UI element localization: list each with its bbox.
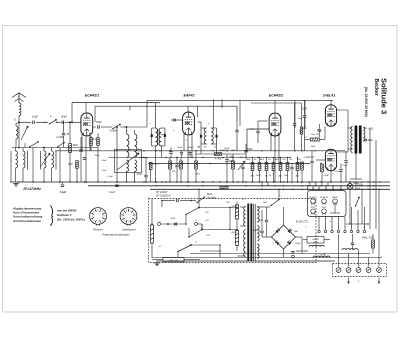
wire right y224 (346, 223, 368, 225)
svg-text:9: 9 (126, 210, 127, 212)
svg-text:4x10: 4x10 (256, 175, 262, 177)
wire bus3 (150, 188, 390, 190)
svg-text:20μF: 20μF (253, 230, 259, 232)
svg-text:50Ω: 50Ω (317, 130, 321, 132)
svg-text:U5013: U5013 (231, 232, 238, 234)
wire rail A (71, 103, 73, 123)
svg-text:10μF: 10μF (298, 118, 304, 120)
capacitor C10a (180, 152, 183, 154)
coil TR1 primary b (244, 230, 246, 257)
wire V1 pins (81, 134, 83, 151)
svg-text:0,1μF: 0,1μF (109, 191, 116, 194)
svg-text:8: 8 (103, 216, 104, 218)
capacitor C11 (175, 164, 178, 166)
wire psu bus b (152, 257, 382, 259)
wire input row (19, 121, 31, 123)
node dots left (44, 122, 45, 123)
svg-text:10nF: 10nF (310, 157, 316, 159)
capacitor C30 (351, 242, 354, 244)
wire V3 grid left (247, 128, 269, 130)
switch S2 (30, 142, 39, 147)
svg-text:0,1MΩ: 0,1MΩ (56, 136, 63, 139)
transformer TR2 core (355, 126, 358, 154)
coil L4 (16, 151, 18, 168)
resistor (97, 138, 100, 146)
rectifier bridge B250 (272, 225, 296, 249)
svg-text:2F=472kHz: 2F=472kHz (22, 187, 41, 191)
svg-text:10nF: 10nF (102, 160, 108, 162)
capacitor 20nF (225, 159, 228, 161)
capacitor C15 (290, 166, 293, 168)
capacitor 10nF g (310, 160, 313, 162)
tube socket diagram A (90, 208, 107, 225)
wire psu extra (161, 201, 163, 208)
oscillator box (115, 150, 142, 173)
svg-text:20μF: 20μF (295, 243, 301, 245)
svg-text:10pF: 10pF (32, 114, 38, 118)
svg-text:ECH42/1: ECH42/1 (309, 197, 317, 199)
svg-text:3: 3 (93, 220, 94, 222)
svg-text:0,1μF: 0,1μF (107, 176, 113, 178)
capacitor C10b (189, 152, 192, 154)
capacitor 50pF (61, 121, 63, 124)
wire bridge bottom (283, 249, 285, 258)
terminal T2 (346, 268, 351, 273)
coil TR2 primary (351, 127, 353, 153)
IF transformer T1 left loop (151, 128, 153, 146)
svg-text:60pF: 60pF (178, 147, 183, 149)
op tube V1 ECH42/1 (81, 113, 93, 136)
svg-text:6: 6 (97, 210, 98, 212)
svg-text:1MΩ: 1MΩ (239, 157, 244, 159)
capacitor 50pF V1 out (93, 126, 96, 128)
svg-text:47nF: 47nF (137, 173, 143, 176)
svg-text:5nF: 5nF (259, 220, 264, 222)
capacitor 80pF (169, 151, 172, 153)
junction dots on buses (85, 181, 87, 183)
coil choke3 (313, 256, 330, 258)
svg-text:BV6L 120V: BV6L 120V (362, 238, 374, 240)
wire lamp (349, 182, 351, 184)
wire antenna down (18, 116, 20, 148)
heater EL41 (311, 209, 316, 214)
svg-text:DT 2/3018 IV: DT 2/3018 IV (156, 195, 171, 198)
wire mid row (108, 157, 290, 159)
wire lamp to pins (357, 206, 359, 210)
wire V2 plate (187, 106, 189, 112)
svg-text:5nF: 5nF (263, 202, 267, 204)
wire speaker 2k (363, 139, 365, 141)
wire ladder 230 (229, 208, 231, 230)
capacitor 10nF (83, 157, 86, 159)
resistor 4.7k (214, 153, 222, 156)
heater ECH42/2 (322, 199, 327, 204)
capacitor 50pF (244, 149, 247, 151)
svg-text:(Nr. 2356 bis 2567c): (Nr. 2356 bis 2567c) (57, 217, 85, 221)
coil L3 ant trim (16, 126, 18, 139)
op tube V3 ECH42/2 (269, 113, 281, 136)
coil L10 (135, 160, 137, 172)
resistor Rgl 1M (149, 162, 152, 169)
coil TR1 secondary c (257, 244, 259, 259)
svg-text:5: 5 (93, 212, 94, 214)
capacitor 47nF (144, 174, 147, 176)
svg-text:0,1μF: 0,1μF (323, 175, 329, 177)
wire riser 147 (146, 100, 148, 127)
wire sel links (199, 207, 237, 209)
transformer TR1 core (247, 204, 249, 262)
svg-text:Solitude 3: Solitude 3 (57, 213, 72, 217)
svg-text:300pF: 300pF (188, 147, 195, 149)
capacitor 0.1uF cathode (324, 126, 326, 139)
svg-text:8μF: 8μF (294, 231, 298, 233)
capacitor 100pF (256, 130, 259, 132)
wire detector row (196, 153, 246, 155)
wire mid drops (261, 182, 263, 186)
svg-text:7: 7 (122, 217, 123, 219)
wire (56, 121, 61, 123)
wire bus links right (307, 186, 309, 191)
wire V4 plate (330, 100, 332, 104)
wire rail C (147, 99, 333, 101)
wire IF2 down (200, 144, 202, 154)
wire bridge top (257, 209, 262, 211)
coil L5 (23, 151, 25, 168)
svg-text:4: 4 (132, 220, 133, 222)
svg-text:50pF: 50pF (96, 121, 102, 124)
heater EAF42 (333, 199, 338, 204)
switch sel3 (178, 245, 191, 252)
svg-text:1MΩ: 1MΩ (229, 161, 234, 163)
switch sel2 (189, 230, 202, 238)
svg-text:0.2: 0.2 (93, 137, 97, 141)
switch S1 (50, 120, 57, 124)
resistor 0.3M (301, 162, 304, 170)
resistor 60pF box (76, 161, 79, 169)
trimmer arrow (41, 153, 50, 166)
svg-text:50pF: 50pF (247, 148, 253, 151)
node (18, 147, 20, 149)
wire psu row (160, 223, 186, 225)
resistor sel R31 (235, 205, 238, 219)
svg-text:2×0,5A: 2×0,5A (319, 253, 327, 256)
wire bridge left (262, 236, 272, 238)
wire (197, 106, 199, 117)
coil L6 (44, 151, 46, 168)
wire (36, 121, 48, 123)
svg-text:2×EL41: 2×EL41 (322, 94, 335, 98)
op tube V4 EL41 (325, 105, 336, 127)
resistor R2 (69, 144, 72, 153)
coil IF2b (211, 128, 213, 144)
wire row 147 (12, 147, 98, 149)
svg-text:ECH42/1: ECH42/1 (85, 94, 99, 98)
extra right caps (339, 169, 342, 171)
switch mains (197, 198, 204, 203)
capacitor 50nF psu (174, 223, 176, 226)
resistor R11 (180, 161, 183, 169)
switch lamp (356, 198, 360, 207)
resistor R12 (195, 161, 198, 169)
tube socket diagram B (120, 208, 137, 225)
resistor R20 (321, 164, 324, 172)
heater box (308, 191, 347, 217)
psu junction dots (185, 223, 187, 225)
resistor 0.5M (116, 127, 118, 182)
svg-text:8: 8 (123, 213, 124, 215)
terminal b (195, 223, 198, 226)
svg-text:4: 4 (92, 216, 93, 218)
IF transformer T1 right loop (164, 128, 166, 146)
resistor RC1 (251, 163, 254, 171)
stub 222 (221, 100, 223, 108)
resistor fuse R30 (150, 225, 153, 243)
heater ECH42/1 (311, 199, 316, 204)
switch S4 (113, 125, 120, 129)
coil TR1 primary a (244, 207, 246, 227)
svg-text:20nF: 20nF (224, 148, 230, 151)
svg-text:25nF: 25nF (343, 165, 349, 167)
svg-text:2: 2 (98, 222, 99, 224)
capacitor 30uF (291, 250, 294, 252)
wire V2 grid left (171, 119, 183, 121)
resistor RC6 (286, 163, 289, 171)
wire bridge right (296, 236, 303, 238)
coil TR1 secondary a (257, 207, 259, 223)
terminal pins (318, 230, 320, 232)
terminal a (158, 223, 161, 226)
svg-text:50pF: 50pF (61, 114, 67, 118)
wire (120, 126, 147, 128)
wire sel verticals (185, 215, 187, 225)
coil L1 antenna coil (19, 103, 21, 116)
wire rail D (304, 100, 306, 128)
wire ground bus (10, 181, 390, 183)
capacitor C18 (293, 123, 296, 125)
fuse NSG 2W (163, 258, 184, 263)
terminal T1 (336, 268, 341, 273)
wire plate link (337, 110, 348, 152)
wire V2 pins (183, 134, 185, 151)
wire TR2 down (355, 154, 357, 180)
trimmer arrow (21, 126, 28, 140)
wire (348, 127, 352, 129)
wire to V1 grid (65, 121, 81, 123)
coil choke1 (309, 245, 324, 246)
core IF1 (157, 129, 159, 145)
svg-text:30pF: 30pF (95, 155, 101, 157)
resistor U4063 (307, 237, 324, 244)
psu dashed box (149, 199, 317, 263)
capacitor bus cap 2 (61, 184, 64, 186)
trimmer arrow (117, 153, 139, 170)
resistor cathode 1k (310, 138, 320, 141)
lamp dial (347, 184, 353, 190)
wire sec top to switch (257, 206, 270, 208)
terminal T4 (366, 268, 371, 273)
wire V3 plate (274, 100, 276, 112)
capacitor bus cap (115, 184, 118, 186)
wire heater links (334, 204, 336, 214)
wire avc row (55, 150, 345, 152)
svg-text:1kΩ 1W: 1kΩ 1W (311, 134, 320, 136)
wire primary links (240, 206, 246, 208)
svg-text:50nF: 50nF (171, 218, 177, 220)
antenna (18, 93, 20, 103)
resistor RC3 (265, 163, 268, 171)
svg-text:wie bei GW55: wie bei GW55 (57, 209, 77, 213)
svg-text:1: 1 (102, 220, 103, 222)
wire grid V5 (330, 171, 332, 182)
resistor RC7 (296, 163, 299, 171)
resistor RC5 (279, 163, 282, 171)
coil L9 (127, 160, 129, 172)
resistor R10 (169, 161, 172, 169)
resistor sel R32 (235, 231, 238, 246)
coil IF2a (204, 128, 206, 144)
coil IF1b (159, 128, 161, 146)
wire V3 pins (270, 134, 272, 151)
svg-text:1: 1 (130, 210, 131, 212)
coil bank wires 1 (10, 151, 12, 170)
wire osc connections (126, 127, 128, 134)
wire IF1 down (154, 146, 156, 182)
svg-text:20nF: 20nF (220, 150, 226, 152)
terminal T3 (356, 268, 361, 273)
junction dots rows (69, 150, 70, 151)
svg-text:B 250 C75: B 250 C75 (296, 221, 308, 224)
heater EL41 (322, 209, 327, 214)
wire y251 (200, 250, 220, 252)
wire psu bus a (190, 253, 370, 255)
IF transformer T2 right loop (216, 128, 218, 144)
ground (13, 183, 18, 185)
svg-text:7: 7 (102, 212, 103, 214)
svg-text:(Nr. 23 600-30 900): (Nr. 23 600-30 900) (364, 87, 368, 117)
svg-text:EL41: EL41 (322, 207, 326, 209)
svg-text:10nF: 10nF (68, 164, 74, 166)
svg-text:Röhren: Röhren (93, 228, 103, 232)
capacitor 20uF (260, 230, 263, 232)
svg-text:EL41: EL41 (311, 207, 315, 209)
wire rail B (95, 106, 237, 122)
arrow terminal 2 (348, 278, 350, 284)
svg-text:EAF42: EAF42 (332, 196, 338, 199)
svg-text:4,7kΩ: 4,7kΩ (215, 159, 221, 161)
wire psu bus c (156, 260, 335, 262)
svg-text:47nF: 47nF (102, 170, 108, 172)
wire right verticals (369, 128, 371, 229)
svg-text:39nF: 39nF (311, 146, 317, 148)
svg-text:3: 3 (134, 217, 135, 219)
svg-text:0,5MΩ: 0,5MΩ (304, 157, 311, 159)
coil choke2 (342, 249, 358, 250)
capacitor 5nF (265, 219, 268, 221)
terminal T5 (377, 268, 382, 273)
coil L8 (135, 134, 137, 158)
coil L6b (52, 151, 54, 168)
resistor R40 (372, 240, 375, 248)
svg-text:Anschlussklemmen: Anschlussklemmen (12, 219, 41, 223)
svg-text:1MΩ: 1MΩ (231, 150, 236, 152)
capacitor 0.1uF mains (162, 200, 175, 202)
IF transformer T2 left loop (200, 128, 202, 144)
capacitor 30uF cath (318, 129, 321, 131)
terminal strip box (333, 264, 387, 277)
coil TR2 secondary (363, 127, 365, 141)
wire (239, 100, 241, 126)
svg-text:80pF: 80pF (160, 134, 166, 136)
resistor A51 right (300, 127, 303, 134)
wire pin drops (318, 217, 320, 229)
svg-text:Schalter: Schalter (207, 196, 216, 199)
svg-text:220Ω: 220Ω (313, 242, 318, 244)
capacitor 0.1uF (241, 166, 244, 168)
resistor RC2 (258, 163, 261, 171)
wire row (148, 163, 310, 165)
wire (303, 239, 307, 241)
ground psu (154, 262, 159, 264)
wire IF2 top (213, 100, 215, 128)
coil TR1 secondary b (257, 226, 259, 242)
svg-text:2: 2 (133, 213, 134, 215)
switch HT (271, 200, 279, 206)
svg-text:Becker: Becker (373, 79, 379, 96)
wire right drops (338, 234, 340, 267)
svg-text:ECH42/2: ECH42/2 (320, 197, 328, 199)
resistor on bus2 (220, 186, 228, 189)
junction dots buses (18, 181, 20, 183)
svg-text:0.5MΩ: 0.5MΩ (109, 130, 116, 133)
resistor 0.2M (90, 138, 93, 146)
volume pot arrow (238, 161, 245, 170)
wire speaker 5ohm (363, 127, 366, 129)
svg-text:U4063: U4063 (312, 239, 319, 241)
coil IF1a (155, 128, 157, 146)
op tube V5 EL41 (325, 149, 336, 171)
capacitor 22nF (303, 115, 306, 117)
svg-text:30μF 150V: 30μF 150V (296, 250, 308, 253)
wire psu ladder (201, 224, 203, 230)
switch sel1 (186, 208, 199, 215)
op tube V2 EAF42 (183, 112, 195, 135)
wire vert 362 (361, 189, 363, 224)
svg-text:Fassungsschaltungen: Fassungsschaltungen (102, 232, 130, 236)
switch S3 (58, 143, 65, 148)
svg-text:0,1μF: 0,1μF (60, 192, 67, 194)
svg-text:50pF: 50pF (73, 145, 79, 147)
arrow terminal 5 (378, 278, 380, 284)
capacitor 50pF k (79, 149, 82, 151)
capacitor 30pF (62, 132, 65, 134)
wire bus2 (88, 185, 390, 187)
svg-text:5: 5 (128, 222, 129, 224)
svg-text:6: 6 (124, 220, 125, 222)
wire V1 plate (85, 103, 87, 112)
capacitor 20nF v2 (235, 129, 238, 131)
coil L7 (127, 134, 129, 158)
resistor 1M (232, 161, 235, 169)
svg-text:ECH42/2: ECH42/2 (269, 94, 283, 98)
svg-text:Zweifacher: Zweifacher (121, 228, 137, 232)
coil bank wires 2 (40, 151, 42, 170)
wire (139, 157, 148, 159)
svg-text:1MΩ: 1MΩ (246, 159, 251, 161)
capacitor 10pF (32, 121, 34, 124)
svg-text:EAF42: EAF42 (184, 94, 195, 98)
resistor RC4 (272, 163, 275, 171)
svg-text:Solitude 3: Solitude 3 (380, 78, 389, 114)
